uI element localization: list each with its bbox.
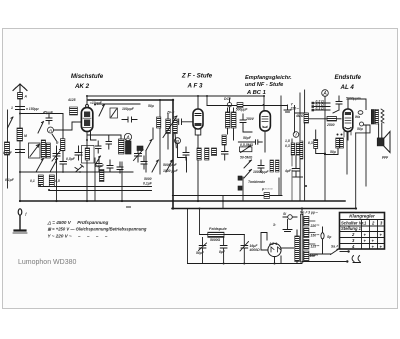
mains fuse Si	[288, 215, 293, 220]
svg-text:5000μμm: 5000μμm	[346, 97, 361, 101]
wire: f column upper	[294, 106, 296, 133]
ground node oval	[18, 209, 22, 215]
field coil zigzag vertical	[381, 109, 384, 123]
wire: vertical x=325	[324, 97, 326, 202]
capacitor IF2 secondary	[222, 145, 229, 160]
junction dot	[172, 207, 174, 209]
electrolytic capacitor 50uF	[199, 237, 207, 263]
wire AL4 base taps	[344, 132, 351, 138]
wire: AVC drop x=281	[280, 96, 282, 196]
junction dot	[19, 171, 21, 173]
table column line 2	[369, 220, 371, 250]
svg-text:4μF: 4μF	[284, 169, 292, 173]
resistor column x=101.7	[100, 170, 104, 182]
wire: vertical x=223	[222, 196, 224, 209]
switch squiggle below cap	[75, 165, 84, 173]
svg-text:A BC 1: A BC 1	[246, 90, 266, 96]
wire AZ1 to transformer	[281, 247, 293, 249]
junction dot	[55, 200, 57, 202]
svg-text:1,5: 1,5	[285, 139, 290, 143]
small circle component	[360, 122, 364, 126]
terminal square 2	[238, 186, 242, 190]
Feldspule resistor	[208, 232, 224, 237]
wire: feeder y=190	[49, 190, 152, 192]
svg-text:45μμF: 45μμF	[42, 111, 54, 115]
circled node A (left)	[48, 127, 54, 133]
wire: main bus y=208.5 (heavy)	[172, 208, 356, 210]
svg-text:B: B	[176, 139, 179, 144]
terminal dots above double resistor	[337, 134, 339, 136]
wire: small circle link	[356, 125, 370, 133]
wire: HT rail y=105.5	[207, 105, 288, 107]
wire AVC extension	[95, 171, 133, 173]
electrolytic capacitor 16uF with arrow	[240, 235, 249, 264]
diode load cap	[240, 114, 246, 128]
wire selector column	[310, 227, 331, 254]
svg-text:≈10μμF: ≈10μμF	[90, 101, 103, 105]
tube AF3 top lead	[197, 96, 199, 109]
resistor left margin	[5, 142, 10, 155]
coupling capacitor 5000uuF	[333, 96, 342, 113]
junction dot	[121, 200, 123, 202]
wire node B down and right	[178, 144, 187, 172]
capacitor bottom a	[96, 158, 102, 172]
wire: speaker return	[355, 133, 357, 209]
tap wires to selector	[309, 221, 315, 256]
resistor AF3 cathode 1	[197, 148, 201, 160]
svg-text:8μF: 8μF	[219, 250, 226, 254]
junction dot	[94, 104, 96, 106]
tube AL4 grid dashes	[345, 118, 351, 123]
svg-text:μμμ: μμμ	[381, 155, 388, 159]
pointer from node A	[52, 134, 57, 141]
tube AF3 electrode bottom	[195, 123, 202, 126]
grid capacitor AF3 (vertical plates)	[177, 119, 193, 125]
svg-text:0,5: 0,5	[55, 179, 60, 183]
wire: PSU bottom rail	[188, 262, 347, 264]
svg-text:ZF-F: ZF-F	[166, 111, 175, 115]
tube AL4 anode bar	[345, 112, 351, 115]
svg-text:0,3 Ω: 0,3 Ω	[316, 107, 325, 111]
svg-text:50μ: 50μ	[148, 104, 154, 108]
wire transformer to speaker b	[381, 123, 383, 138]
IF transformer primary	[166, 119, 171, 134]
table column line 3	[377, 220, 379, 250]
wire: vertical x=300	[299, 93, 301, 201]
trimmer capacitor with arrow	[134, 147, 144, 162]
wire: vertical x=243	[242, 177, 244, 201]
transformer core	[301, 215, 303, 263]
tube ABC1 electrode top	[262, 117, 268, 122]
svg-text:110™: 110™	[310, 254, 319, 258]
IF transformer secondary	[173, 119, 177, 134]
resistor mid column x=63	[61, 139, 65, 151]
capacitor AF3 cathode	[183, 147, 189, 160]
svg-text:0,5-5MΩ: 0,5-5MΩ	[240, 143, 254, 147]
wire: rail y=96 drop to ABC1	[263, 96, 265, 111]
resistor 0,3 below AL4 grid	[314, 140, 318, 149]
resistor below AK2	[85, 148, 89, 160]
table row line 4	[340, 237, 385, 239]
wire: antenna input line y=113.5	[20, 113, 63, 115]
junction dot	[355, 207, 357, 209]
output transformer hatched winding	[375, 110, 378, 125]
tube AK2 top cap lead	[86, 96, 88, 105]
table title separator	[340, 219, 385, 221]
svg-text:⊞ = +250 V — Gleichspannung/Be: ⊞ = +250 V — Gleichspannung/Betriebsspan…	[48, 227, 147, 232]
junction dot	[172, 200, 174, 202]
oscillator coil double box	[119, 139, 125, 154]
mains lead upper with dot	[340, 251, 348, 253]
junction dot	[305, 185, 307, 187]
wire: vertical x=304.6	[304, 90, 306, 201]
table Klangregler outer border	[340, 213, 385, 250]
wire resistor top	[315, 130, 317, 140]
transformer primary winding segment 2	[304, 228, 309, 238]
svg-text:0,1μF: 0,1μF	[95, 164, 105, 168]
resistor bottom row 2	[49, 175, 54, 187]
junction dot	[86, 139, 88, 141]
wire: vertical x=347	[346, 132, 348, 174]
grid resistor AL4 (horizontal)	[327, 117, 337, 122]
wire: vertical x=292	[291, 139, 293, 143]
svg-text:4000Ω: 4000Ω	[249, 248, 261, 252]
wire HT winding top	[296, 230, 298, 236]
svg-text:Si: Si	[283, 212, 286, 216]
shield enclosure around cathode resistor	[82, 146, 95, 164]
tube AF3 cathode lead	[197, 135, 199, 201]
antenna	[13, 84, 27, 92]
tube AL4 envelope	[343, 109, 353, 132]
minus dash on bus	[126, 207, 131, 208]
capacitor tone a	[258, 160, 264, 173]
slider dark box	[137, 146, 143, 151]
wire: vertical x=95	[94, 158, 96, 201]
wire to ground	[19, 215, 21, 229]
resistor 50000 ohm inline on feeder	[264, 193, 270, 199]
svg-text:0,5μF: 0,5μF	[66, 157, 76, 161]
svg-text:250V: 250V	[245, 117, 255, 121]
capacitor bottom b	[107, 160, 113, 172]
table column line 1	[361, 220, 363, 250]
wire res to tube	[337, 118, 342, 120]
junction dot	[274, 263, 276, 265]
wire: Feldspule feeder	[200, 209, 208, 235]
tube AL4 cathode arc	[345, 128, 351, 129]
svg-text:Empfangsgleichr.: Empfangsgleichr.	[245, 75, 292, 81]
wire node D stem	[229, 98, 231, 112]
junction dot	[19, 113, 21, 115]
svg-text:0,1μF: 0,1μF	[5, 178, 15, 182]
capacitor bottom d	[141, 156, 147, 169]
wire: anode rail y=100 (heavy)	[88, 99, 173, 101]
tube AF3 envelope	[193, 109, 203, 129]
wire: vertical x=56.5	[56, 148, 58, 201]
wire: rail link x=207	[206, 96, 208, 106]
resistor IF2 secondary	[222, 135, 226, 145]
tube AF3 electrode top	[195, 114, 201, 116]
junction dot	[62, 171, 64, 173]
wire: screen rail y=96	[87, 95, 264, 97]
svg-text:△ = 4500 V Prüfspannung: △ = 4500 V Prüfspannung	[47, 220, 109, 225]
wire detector y=142	[238, 141, 262, 143]
mains plug hooks	[352, 256, 360, 263]
svg-text:A: A	[48, 128, 52, 134]
svg-text:Feldspule: Feldspule	[209, 227, 227, 231]
svg-text:0,1: 0,1	[30, 179, 35, 183]
antenna coil 1	[41, 140, 45, 158]
capacitor bottom c	[117, 162, 123, 173]
wire resistor leg to node	[316, 149, 325, 154]
junction dot	[199, 208, 201, 210]
transformer primary winding segment 4	[304, 251, 309, 261]
resistor 0,5M left	[304, 113, 309, 123]
wire to ABC1 grid	[243, 128, 252, 132]
wire: screen dropper x=173 (heavy)	[172, 100, 174, 209]
svg-text:Endstufe: Endstufe	[335, 74, 362, 81]
band switch box with diagonal	[110, 108, 118, 118]
svg-text:1000 μμF: 1000 μμF	[163, 169, 179, 173]
junction dot	[197, 95, 199, 97]
svg-text:AK 2: AK 2	[74, 83, 90, 90]
svg-text:0,1μF: 0,1μF	[3, 151, 13, 155]
svg-text:10000μμF: 10000μμF	[253, 170, 270, 174]
wire Feldspule right	[224, 234, 244, 236]
svg-text:Tonblende: Tonblende	[248, 180, 265, 184]
wire: antenna column x=20	[19, 84, 21, 201]
svg-text:150™: 150™	[311, 234, 320, 238]
resistor right column a	[291, 143, 294, 155]
svg-text:4MΩ: 4MΩ	[295, 114, 304, 118]
wire: vertical x=160	[159, 100, 161, 174]
volume potentiometer box	[240, 147, 252, 152]
grid capacitor 45uuF	[46, 114, 52, 125]
svg-text:A: A	[322, 91, 327, 97]
junction dot	[206, 95, 208, 97]
wire AZ1 cathode down	[274, 257, 276, 264]
tube AK2 electrode block 2	[84, 120, 90, 127]
wire transformer top feed	[301, 209, 303, 215]
wire IF transformer leads	[168, 114, 176, 149]
wire AL4 cathode	[347, 132, 349, 141]
svg-text:und NF - Stufe: und NF - Stufe	[245, 82, 283, 88]
svg-text:4125: 4125	[67, 98, 76, 102]
junction dot	[324, 153, 326, 155]
wire: vertical x=122	[121, 162, 123, 201]
electrolytic capacitor 8uF	[220, 237, 227, 263]
circled node B	[175, 138, 181, 144]
tube AK2 cathode lead	[86, 132, 88, 201]
junction dot	[86, 200, 88, 202]
circled node D	[227, 103, 231, 107]
hum bucking tap lines	[313, 103, 330, 110]
capacitor 0,1uF antenna column	[16, 150, 25, 153]
resistor block tone 1	[270, 160, 274, 172]
svg-text:Lumophon WD380: Lumophon WD380	[18, 259, 76, 266]
wire: AVC line y=172	[20, 171, 95, 173]
svg-text:AL 4: AL 4	[340, 84, 355, 91]
component on HT rail	[237, 103, 243, 108]
junction dot	[19, 151, 21, 153]
junction dot	[19, 200, 21, 202]
wire coil top	[120, 135, 122, 139]
output transformer solid winding	[371, 110, 374, 125]
rectifier AZ1 envelope	[268, 243, 281, 256]
svg-text:0,3: 0,3	[285, 144, 290, 148]
transformer primary winding segment 1	[304, 217, 309, 227]
wire: left margin column x=7.5	[7, 110, 9, 188]
resistor antenna column	[17, 128, 23, 141]
tube AK2 electrode block 1	[84, 112, 90, 118]
svg-text:Stellung 1: Stellung 1	[341, 226, 362, 231]
svg-text:A: A	[24, 95, 28, 99]
wire AZ1 anode loop	[261, 233, 268, 251]
svg-text:50μF: 50μF	[196, 251, 205, 255]
tube AK2 second base lead	[91, 132, 97, 140]
grid coupling capacitor 100uuF (vertical plates)	[122, 117, 137, 122]
svg-text:0,3: 0,3	[308, 141, 313, 145]
svg-text:50μF: 50μF	[243, 136, 252, 140]
svg-text:μ∼∼∼: μ∼∼∼	[261, 187, 273, 191]
wire: vertical x=279	[278, 178, 280, 196]
tube ABC1 electrode bottom	[263, 126, 268, 128]
svg-text:5000Ω: 5000Ω	[210, 238, 221, 242]
svg-text:5000: 5000	[144, 177, 152, 181]
tube AK2 envelope	[81, 108, 92, 132]
svg-text:220∼: 220∼	[290, 107, 300, 111]
svg-text:2500: 2500	[326, 123, 335, 127]
IF transformer tuning arrow	[163, 116, 177, 138]
small oval component Wa	[358, 111, 363, 115]
wire: PSU left wall	[187, 209, 189, 264]
junction dot	[301, 207, 303, 209]
wire rail y=104	[97, 103, 140, 105]
junction dot	[243, 263, 245, 265]
svg-text:Schalter Nr.: Schalter Nr.	[341, 220, 364, 225]
transformer primary winding segment 3	[304, 240, 309, 250]
wire vertical x=153	[152, 128, 154, 139]
svg-text:50-5MΩ: 50-5MΩ	[240, 156, 253, 160]
capacitor 0,5uF b	[75, 146, 82, 160]
svg-text:± 150μμ: ± 150μμ	[26, 107, 39, 111]
switch arm right of enclosure	[95, 156, 101, 165]
resistor right column b	[296, 143, 299, 155]
fuse/coupling component on antenna lead	[18, 93, 23, 100]
svg-text:0,1μF: 0,1μF	[143, 182, 153, 186]
mains tap Y symbol	[284, 105, 291, 112]
table row line 2	[340, 225, 385, 227]
switch arm ABC1 lower	[244, 170, 252, 179]
circled node A (mid)	[124, 133, 131, 140]
switch arm IF 2	[166, 160, 173, 172]
earth tap symbol	[283, 220, 292, 232]
wire node A to tube grid	[54, 122, 76, 130]
capacitor small	[106, 136, 112, 149]
double resistor right of AL4	[336, 138, 340, 148]
wire transformer to speaker a	[378, 124, 380, 138]
switch arm ABC1 upper	[244, 160, 252, 168]
ground symbol	[15, 229, 26, 231]
svg-text:Wa: Wa	[355, 115, 360, 119]
svg-text:A: A	[125, 135, 130, 141]
circled node A (top right)	[322, 90, 329, 97]
oscillator switch arm 2	[50, 159, 58, 173]
wire osc section horizontals	[87, 134, 121, 136]
table row line 3	[340, 231, 385, 233]
mains switch lever	[331, 249, 340, 255]
wire AL4 anode to transformer	[348, 99, 366, 110]
junction dot	[79, 171, 81, 173]
variable capacitor with arrow	[52, 146, 62, 163]
wire AZ1 bottom loop	[275, 256, 282, 264]
speaker magnet	[377, 138, 384, 146]
junction dot	[39, 185, 41, 187]
oscillator switch arm 1	[36, 159, 44, 173]
wire vertical x=146	[145, 151, 147, 173]
tube AK2 grid dashes	[83, 118, 91, 127]
svg-text:125™: 125™	[311, 245, 320, 249]
speaker cone	[384, 132, 390, 153]
junction dot	[172, 99, 174, 101]
junction dot	[197, 200, 199, 202]
resistor bottom row 1	[38, 175, 43, 187]
switch arm above AK2	[99, 105, 105, 117]
resistor AF3 cathode 2	[205, 148, 209, 160]
svg-text:Z F - Stufe: Z F - Stufe	[181, 73, 213, 80]
wire grid line AL4	[295, 113, 327, 119]
svg-text:500μμF: 500μμF	[236, 108, 249, 112]
wire: main bus y=201 (heavy)	[20, 200, 345, 202]
junction dot	[223, 263, 225, 265]
circled node f	[293, 132, 299, 138]
svg-text:M: M	[24, 134, 27, 138]
svg-text:Mischstufe: Mischstufe	[71, 73, 104, 80]
svg-text:1: 1	[11, 106, 13, 110]
wire double resistor leg	[325, 148, 339, 155]
svg-text:A F 3: A F 3	[187, 83, 203, 90]
svg-text:Klangregler: Klangregler	[349, 214, 375, 219]
table row line 5	[340, 243, 385, 245]
svg-text:AZ 1: AZ 1	[268, 242, 277, 246]
svg-text:3↑: 3↑	[273, 223, 277, 227]
junction dot	[222, 200, 224, 202]
svg-text:50μ: 50μ	[357, 127, 363, 131]
voltage selector plug	[321, 233, 324, 239]
tube AK2 grid lead left	[75, 121, 81, 123]
capacitor 0,5uF a	[60, 151, 67, 172]
label 100000 block	[70, 107, 78, 115]
switch arm left margin	[8, 117, 14, 128]
svg-text:Sp: Sp	[327, 235, 331, 239]
antenna coil 2	[46, 143, 50, 158]
svg-text:Sa↗: Sa↗	[331, 245, 338, 249]
junction dot	[263, 95, 265, 97]
wire mid column x=63	[62, 114, 64, 139]
switch arm IF 1	[152, 160, 159, 172]
screen resistor on x=160	[157, 117, 161, 128]
AZ1 filament arcs	[271, 247, 281, 252]
junction dot	[159, 99, 161, 101]
wire IF2 leads	[228, 108, 234, 140]
tube ABC1 envelope	[260, 111, 271, 131]
junction dot	[86, 95, 88, 97]
wire right column bottom	[293, 176, 303, 178]
svg-text:DC2: DC2	[224, 97, 231, 101]
resistor block tone 2	[276, 160, 280, 172]
svg-text:Y ~ 220 V ~ – – –: Y ~ 220 V ~ – – – –	[48, 234, 108, 239]
junction dot	[48, 189, 50, 191]
tube ABC1 cathode lead	[264, 131, 266, 152]
